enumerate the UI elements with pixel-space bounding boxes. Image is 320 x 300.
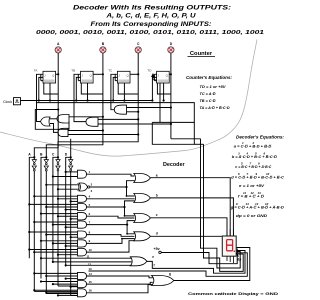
wire term 12 (53, 261, 132, 263)
wire TA Q output (56, 73, 59, 75)
wire term16 to g (87, 285, 153, 293)
wire TC J-K tie (115, 74, 117, 80)
XNOR gate term 2,3 (78, 183, 88, 191)
wire term 13 (66, 264, 132, 266)
OR gate TA (41, 117, 51, 126)
OR gate segment f (130, 257, 147, 266)
wire dp stub (236, 253, 238, 257)
wire TC input 1 (127, 107, 171, 109)
wire e to display (161, 253, 237, 264)
AND gate term 1 (78, 170, 87, 178)
wire C-inv to gate15 lower (58, 285, 78, 287)
display bottom pins (227, 256, 233, 263)
AND gate term 9 (78, 240, 87, 247)
wire TD clock stub (152, 77, 156, 100)
wire a to display (150, 178, 230, 236)
wire TD J-K tie (154, 74, 156, 80)
flip-flop TC (108, 69, 130, 84)
AND gate term 8 (78, 231, 87, 238)
decoder equation (234, 141, 272, 148)
wire term5 to c (125, 207, 135, 216)
svg-text:Counter's Equations:: Counter's Equations: (186, 75, 232, 80)
probe indicator C (135, 42, 141, 53)
wire bus A plain line (29, 157, 34, 258)
wire D jog extension right (171, 138, 201, 140)
wire bus C complement line (57, 157, 59, 286)
decoder equation (231, 172, 284, 179)
wire probe C stem (137, 53, 139, 74)
decoder equation (232, 152, 278, 159)
inverter pair on C complement line (56, 160, 60, 163)
wire TA J-K tie (41, 74, 43, 80)
inverter pair on A complement line (32, 160, 36, 163)
wire term4 to b (87, 198, 135, 200)
wire term14 to g (87, 276, 153, 278)
wire TB clock stub (76, 77, 80, 100)
svg-text:Decoder: Decoder (163, 162, 185, 168)
decoder equation (230, 202, 284, 209)
svg-text:d: d (156, 232, 158, 236)
decoder equation (235, 162, 271, 169)
wire c to display (150, 218, 227, 238)
svg-text:d = C·D̅ + B̅·D + B·C·D̅ + B̅·: d = C·D̅ + B̅·D + B·C·D̅ + B̅·C (231, 175, 284, 179)
wire TA lower pin drop (49, 83, 51, 101)
wire bus D plain line (66, 157, 71, 266)
wire TA term2 input 1 (68, 130, 103, 132)
svg-text:f = B + C̅ + D̅: f = B + C̅ + D̅ (238, 195, 265, 199)
svg-text:0000, 0001, 0010, 0011, 0100,: 0000, 0001, 0010, 0011, 0100, 0101, 0110… (36, 30, 264, 36)
clock source (3, 98, 21, 105)
OR gate segment c (134, 214, 151, 223)
wire right stub 2 (236, 252, 240, 257)
probe indicator D (168, 42, 174, 53)
svg-text:a: a (156, 173, 158, 177)
wire TA clock stub (39, 77, 43, 100)
wire bus B complement line (45, 157, 47, 293)
wire clock line (21, 100, 153, 102)
wire Q_B drop to bus (46, 74, 103, 157)
wire probe D stem (170, 53, 172, 74)
AND gate term 10 (78, 248, 87, 256)
wire TA T-input from OR output (37, 74, 41, 121)
svg-text:13: 13 (89, 267, 93, 271)
wire TB J-K tie (78, 74, 80, 80)
svg-text:TD = 1 or +5V: TD = 1 or +5V (200, 84, 226, 89)
wire TB lower pin loop (81, 83, 103, 94)
wire term15 to g (87, 282, 153, 284)
svg-text:c: c (156, 213, 158, 217)
wire TC Q output (130, 73, 138, 75)
svg-text:Common cathode Display ≡ GND: Common cathode Display ≡ GND (188, 292, 278, 296)
wire term5 to b (87, 201, 135, 207)
+5V source at TD input (152, 74, 157, 80)
wire term 11 (41, 257, 132, 259)
decoder equation (238, 191, 265, 198)
wire TA lower pin loop (44, 83, 58, 94)
svg-text:e = 1 or +5V: e = 1 or +5V (239, 184, 265, 188)
AND gate TB term (86, 117, 98, 126)
svg-text:Clock: Clock (3, 100, 12, 104)
wire TA term2 input 2 (68, 134, 138, 136)
wire right stub 3 (236, 254, 243, 256)
wire TD lower pin drop (163, 83, 165, 101)
svg-text:a = C·D̅ + B·D + B̅·D̅: a = C·D̅ + B·D + B̅·D̅ (234, 145, 272, 149)
svg-text:g: g (169, 272, 171, 276)
wire cc rail 1 (201, 139, 241, 268)
wire Q_D drop to bus (71, 74, 171, 157)
wire D-inv bottom stub (71, 295, 78, 297)
wire probe A stem (57, 53, 59, 74)
wire TC lower pin loop (118, 83, 138, 94)
AND gate TA term 1 (57, 115, 69, 124)
wire TC clock stub (113, 77, 117, 100)
AND gate term 4 (78, 195, 87, 202)
wire bus D complement line (70, 157, 72, 295)
display top pins (227, 229, 233, 236)
svg-text:Decoder's Equations:: Decoder's Equations: (236, 134, 284, 139)
wire TC input 2 (127, 111, 139, 113)
svg-text:b: b (156, 193, 158, 197)
wire B-inv to gate16 lower (46, 293, 77, 295)
AND gate TC term (114, 105, 126, 114)
wire term6 to c (87, 216, 135, 218)
svg-text:TA = A·D̅ + B̅·C·D: TA = A·D̅ + B̅·C·D (200, 105, 230, 110)
wire Q_C drop to bus (58, 74, 138, 157)
wire TA term1 to OR (50, 118, 57, 120)
AND gate term 6 (78, 213, 87, 220)
svg-text:TC = A·D̅: TC = A·D̅ (200, 91, 216, 96)
svg-text:Decoder With Its Resulting OUT: Decoder With Its Resulting OUTPUTS: (73, 5, 231, 12)
svg-text:10: 10 (89, 248, 93, 252)
wire term7 to d (127, 225, 135, 234)
wire TD Q output (169, 73, 171, 75)
wire cc rail 2 (204, 144, 244, 271)
inverter pair on B complement line (44, 160, 48, 163)
decoder equation (239, 184, 265, 188)
wire TB lower pin drop (87, 83, 89, 101)
wire term13 around display (89, 253, 248, 276)
wire term2 to a (90, 181, 135, 187)
AND gate term 14 (78, 272, 87, 279)
svg-text:dp = 0 or GND: dp = 0 or GND (236, 214, 267, 218)
svg-text:14: 14 (89, 272, 93, 276)
svg-text:A, b, C, d, E, F, H, O, P, U: A, b, C, d, E, F, H, O, P, U (105, 13, 196, 20)
decoder equation (236, 214, 267, 218)
separator freehand curve (0, 40, 257, 157)
wire TA term1 input (69, 116, 103, 118)
wire term8 to d (87, 235, 135, 237)
wire g to display (174, 248, 250, 281)
svg-text:b = A̅·C·D + B·C + B̅·C·D̅: b = A̅·C·D + B·C + B̅·C·D̅ (232, 155, 278, 159)
wire term10 to d (87, 241, 135, 252)
wire bus B plain line (41, 157, 46, 278)
OR gate segment g (152, 276, 174, 286)
wire right stub 1 (236, 249, 237, 256)
AND gate term 5 (78, 204, 87, 211)
svg-text:TB = C·D̅: TB = C·D̅ (200, 98, 216, 103)
svg-text:+5v: +5v (154, 247, 160, 251)
AND gate TA term 2 (58, 128, 68, 136)
svg-text:dp: dp (237, 257, 241, 261)
wire term7 to c (87, 221, 135, 225)
wire bus A complement line (33, 157, 35, 291)
svg-text:TA: TA (34, 69, 38, 73)
AND gate term 7 (78, 221, 87, 228)
svg-text:From Its Corresponding INPUTS:: From Its Corresponding INPUTS: (91, 21, 212, 28)
wire TB input 2 (98, 123, 171, 125)
wire TB T-input from AND TB output (74, 74, 86, 121)
svg-text:15: 15 (89, 280, 93, 284)
wire TD lower pin loop (157, 83, 171, 94)
OR gate segment a (134, 174, 151, 183)
svg-text:Counter: Counter (190, 51, 213, 57)
flip-flop TB (71, 69, 93, 84)
wire Q_A drop to bus (34, 74, 58, 157)
wire term3 to b (127, 187, 135, 196)
svg-text:11: 11 (87, 254, 90, 258)
AND gate term 15 (78, 281, 87, 288)
AND gate term 16 (78, 289, 87, 297)
probe indicator A (55, 42, 61, 53)
flip-flop TD (147, 69, 169, 84)
svg-text:c = B·C + B·D + A̅·B·C: c = B·C + B·D + A̅·B·C (235, 165, 271, 169)
wire b to display (150, 198, 233, 236)
wire bus C plain line (53, 157, 58, 262)
svg-text:g = C·D̅ + A·C̅ + B·D̅ + A̅·B·: g = C·D̅ + A·C̅ + B·D̅ + A̅·B·D (230, 206, 284, 210)
svg-text:e: e (152, 255, 154, 259)
wire A-inv to gate16 (34, 290, 77, 292)
probe indicator B (100, 42, 106, 53)
OR gate segment d (134, 232, 151, 241)
wire secondary rail (37, 103, 195, 123)
wire TB input 1 (98, 118, 138, 120)
flip-flop TA (34, 69, 56, 84)
OR gate segment b (134, 194, 151, 203)
wire probe B stem (102, 53, 104, 74)
wire TD routing loop (152, 83, 194, 144)
wire term1 to a (87, 174, 135, 176)
wire TC T-input from AND TC output (111, 74, 115, 109)
wire TC lower pin drop (123, 83, 125, 101)
wire d to display (150, 235, 222, 237)
wire TB Q output (93, 73, 103, 75)
inverter pair on D complement line (69, 160, 73, 163)
svg-text:16: 16 (89, 289, 93, 293)
wire term9 to d (87, 239, 135, 244)
wire f to display (147, 251, 245, 274)
seven segment display (222, 236, 236, 256)
wire loop extension right (194, 143, 203, 145)
wire TA term2 to OR (50, 124, 58, 133)
wire TA routing loop (35, 110, 69, 130)
svg-text:TB: TB (71, 69, 75, 73)
svg-text:12: 12 (88, 262, 92, 266)
